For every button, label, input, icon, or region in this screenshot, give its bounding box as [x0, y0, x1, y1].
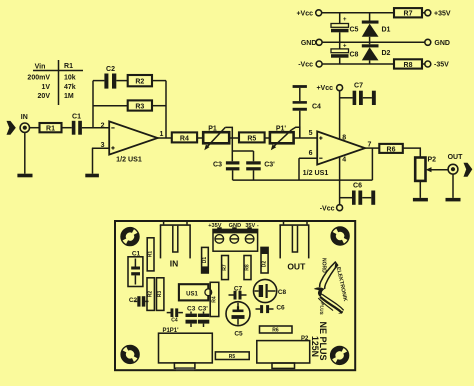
- svg-text:125N: 125N: [310, 336, 320, 357]
- svg-text:IN: IN: [21, 114, 28, 121]
- svg-text:R4: R4: [180, 136, 189, 143]
- svg-text:R3: R3: [157, 291, 163, 298]
- svg-text:R1: R1: [148, 251, 154, 258]
- svg-text:US1: US1: [186, 291, 198, 297]
- svg-text:+Vcc: +Vcc: [296, 10, 313, 17]
- svg-text:P1': P1': [276, 126, 287, 133]
- svg-text:GND: GND: [301, 40, 317, 47]
- svg-text:R3: R3: [135, 104, 144, 111]
- svg-text:1/2 US1: 1/2 US1: [303, 169, 329, 177]
- svg-text:200mV: 200mV: [27, 75, 50, 82]
- svg-text:4: 4: [342, 157, 346, 164]
- svg-text:C4: C4: [312, 104, 321, 111]
- svg-text:C2: C2: [106, 66, 115, 73]
- svg-text:P1: P1: [208, 126, 217, 133]
- svg-text:R8: R8: [404, 62, 413, 69]
- svg-text:-Vcc: -Vcc: [320, 205, 335, 212]
- svg-text:+: +: [343, 17, 347, 23]
- svg-text:5: 5: [309, 130, 313, 137]
- svg-text:R6: R6: [387, 146, 396, 153]
- svg-text:C5: C5: [234, 331, 243, 338]
- svg-text:R8: R8: [245, 264, 251, 271]
- svg-text:R7: R7: [404, 11, 413, 18]
- svg-text:R5: R5: [229, 354, 236, 360]
- svg-text:R1: R1: [46, 125, 55, 132]
- svg-text:1V: 1V: [41, 84, 50, 91]
- svg-text:C4: C4: [171, 318, 178, 324]
- svg-text:6: 6: [309, 150, 313, 157]
- svg-text:NORD: NORD: [321, 258, 327, 273]
- svg-text:R6: R6: [272, 328, 279, 334]
- svg-text:R4: R4: [212, 296, 218, 303]
- svg-text:10k: 10k: [64, 75, 76, 82]
- svg-text:R2: R2: [148, 291, 154, 298]
- svg-text:R1: R1: [64, 63, 73, 70]
- svg-text:C1: C1: [72, 113, 81, 120]
- svg-text:P2: P2: [428, 157, 437, 164]
- svg-text:R7: R7: [222, 264, 228, 271]
- svg-text:-35V: -35V: [434, 62, 449, 69]
- svg-text:R5: R5: [247, 136, 256, 143]
- svg-text:D2: D2: [262, 261, 268, 268]
- svg-text:PLUS: PLUS: [319, 302, 325, 315]
- svg-text:OUT: OUT: [448, 154, 464, 161]
- svg-text:C8: C8: [278, 289, 287, 296]
- svg-text:2: 2: [101, 122, 105, 129]
- svg-text:35V -: 35V -: [245, 223, 259, 229]
- svg-text:C3': C3': [198, 306, 208, 313]
- svg-text:IN: IN: [170, 259, 179, 269]
- svg-text:+: +: [343, 43, 347, 49]
- svg-text:OUT: OUT: [287, 262, 306, 272]
- svg-text:D1: D1: [382, 26, 391, 33]
- svg-text:R2: R2: [135, 79, 144, 86]
- svg-text:1/2 US1: 1/2 US1: [116, 156, 142, 164]
- svg-text:D1: D1: [202, 257, 208, 264]
- svg-text:C3': C3': [264, 162, 275, 169]
- svg-text:C6: C6: [353, 183, 362, 190]
- svg-text:D2: D2: [382, 50, 391, 57]
- svg-text:7: 7: [368, 141, 372, 148]
- svg-text:C2: C2: [129, 297, 138, 304]
- svg-text:Vin: Vin: [35, 64, 46, 71]
- svg-text:+35V: +35V: [208, 223, 221, 229]
- svg-text:20V: 20V: [38, 93, 51, 100]
- svg-text:+Vcc: +Vcc: [316, 85, 333, 92]
- svg-text:C3: C3: [187, 306, 196, 313]
- svg-text:C7: C7: [354, 83, 363, 90]
- svg-text:C5: C5: [350, 26, 359, 33]
- svg-text:+35V: +35V: [434, 10, 451, 17]
- svg-text:8: 8: [342, 134, 346, 141]
- svg-text:-Vcc: -Vcc: [298, 62, 313, 69]
- svg-text:3: 3: [101, 142, 105, 149]
- svg-text:47k: 47k: [64, 84, 76, 91]
- svg-text:C8: C8: [350, 52, 359, 59]
- svg-text:GND: GND: [434, 40, 450, 47]
- svg-text:C3: C3: [213, 162, 222, 169]
- svg-text:GND: GND: [229, 223, 241, 229]
- svg-text:1M: 1M: [64, 93, 74, 100]
- svg-text:1: 1: [160, 131, 164, 138]
- svg-text:C6: C6: [276, 305, 285, 312]
